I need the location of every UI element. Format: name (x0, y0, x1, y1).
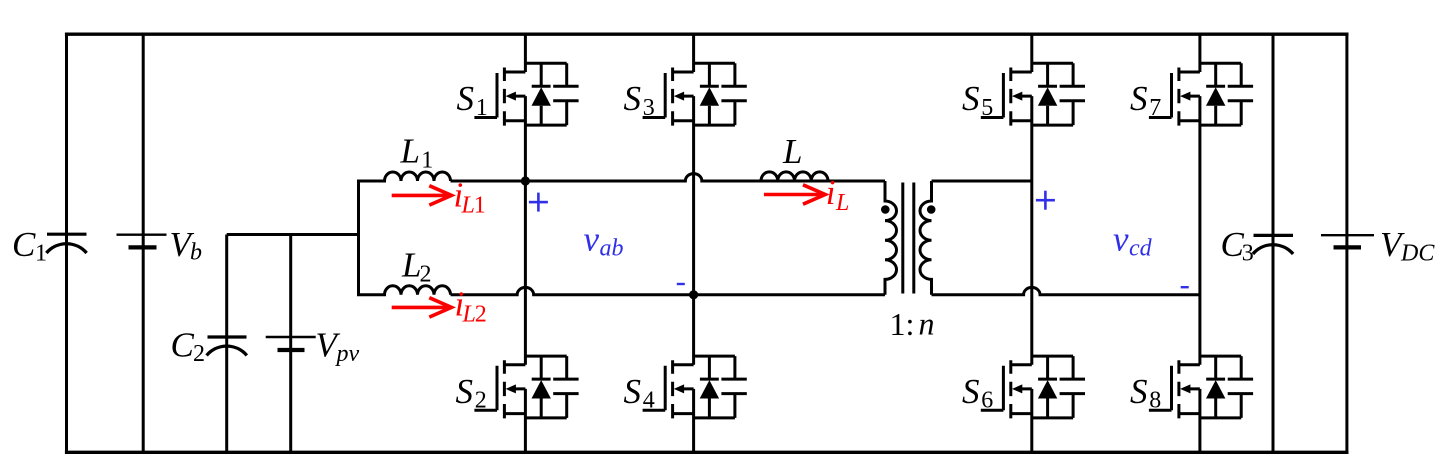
svg-text:6: 6 (981, 388, 993, 414)
inductor L1 (357, 172, 451, 181)
svg-text:1: 1 (35, 240, 47, 266)
svg-text:L: L (462, 302, 476, 328)
wire node d row: secondary to S7/S8 leg, hop over S5/S6 leg (932, 287, 1200, 294)
label VDC (1380, 225, 1435, 267)
svg-text:S: S (624, 372, 642, 411)
transistor S3 (MOSFET with body diode and snubber cap) (643, 63, 747, 125)
svg-text:S: S (457, 79, 475, 118)
svg-text:1: 1 (474, 192, 486, 218)
transformer secondary phase dot (927, 205, 936, 214)
inductor L (750, 172, 828, 181)
wire PV rail (227, 233, 359, 236)
wire S7/S8 leg (1198, 34, 1201, 452)
svg-text:3: 3 (643, 95, 655, 121)
capacitor C1 (46, 34, 86, 452)
svg-text:2: 2 (193, 341, 205, 367)
transistor S7 (MOSFET with body diode and snubber cap) (1149, 63, 1253, 125)
wire node c row: secondary to S5/S6 leg (932, 180, 1032, 183)
current arrow iL2 (392, 298, 452, 317)
svg-text:1: 1 (421, 148, 433, 174)
inductor L2 (357, 286, 451, 295)
svg-text:cd: cd (1129, 235, 1153, 261)
label L2 (401, 246, 432, 288)
label S8 (1130, 372, 1161, 414)
label L1 (400, 132, 434, 174)
transistor S8 (MOSFET with body diode and snubber cap) (1149, 356, 1253, 418)
wire S5/S6 leg (1030, 34, 1033, 452)
label - (node d polarity) (1181, 286, 1189, 288)
label Vb (170, 225, 203, 266)
label iL2 (455, 285, 487, 328)
svg-text:S: S (962, 372, 980, 411)
transformer secondary winding (920, 181, 932, 295)
label S4 (624, 372, 655, 414)
label C1 (12, 225, 47, 266)
label C3 (1221, 225, 1254, 267)
wire node a row: L1 to bridge, hop over S3/S4 leg (451, 174, 886, 181)
wire inductor input vertical (357, 181, 360, 295)
svg-text:C: C (171, 326, 195, 365)
svg-text:4: 4 (643, 388, 655, 414)
wire S3/S4 leg (692, 34, 695, 452)
svg-text:S: S (962, 79, 980, 118)
transistor S6 (MOSFET with body diode and snubber cap) (981, 356, 1085, 418)
svg-text:L: L (835, 190, 849, 216)
label + (node c polarity) (1036, 191, 1055, 210)
label 1:n turns ratio (890, 305, 935, 342)
transformer core (903, 183, 914, 294)
battery Vpv (266, 235, 316, 453)
label S2 (456, 372, 487, 414)
transformer primary phase dot (881, 205, 890, 214)
node a junction dot (521, 176, 530, 185)
svg-text:pv: pv (335, 341, 360, 367)
svg-text:2: 2 (475, 302, 487, 328)
svg-text:L: L (400, 132, 420, 171)
transformer primary winding (885, 181, 897, 295)
wire S1/S2 leg (524, 34, 527, 452)
svg-text:2: 2 (475, 388, 487, 414)
svg-text:n: n (919, 305, 935, 341)
svg-text:2: 2 (420, 262, 432, 288)
wire bottom bus (65, 451, 1349, 454)
label S1 (457, 79, 488, 121)
label iL (826, 173, 850, 216)
svg-text:7: 7 (1149, 95, 1161, 121)
label S6 (962, 372, 993, 414)
svg-text:i: i (826, 173, 836, 212)
svg-text:1: 1 (476, 95, 488, 121)
wire top bus (65, 33, 1349, 36)
label vcd (1113, 220, 1153, 262)
battery Vb (117, 34, 167, 452)
svg-text:DC: DC (1400, 241, 1435, 267)
svg-text:v: v (1113, 220, 1129, 259)
current arrow iL (764, 185, 825, 204)
svg-text:8: 8 (1149, 388, 1161, 414)
svg-text:S: S (1130, 372, 1148, 411)
label S5 (962, 79, 993, 121)
svg-text:5: 5 (981, 95, 993, 121)
svg-text:b: b (190, 240, 202, 266)
svg-text:L: L (461, 192, 475, 218)
transistor S4 (MOSFET with body diode and snubber cap) (643, 356, 747, 418)
wire node b row: L2 to bridge, hop over S1/S2 leg (451, 287, 886, 294)
label - (node b polarity) (677, 283, 685, 285)
transistor S2 (MOSFET with body diode and snubber cap) (474, 356, 578, 418)
battery VDC (1321, 34, 1374, 452)
label Vpv (316, 326, 360, 367)
capacitor C3 (1253, 34, 1293, 452)
label C2 (171, 326, 206, 367)
capacitor C2 (207, 235, 247, 453)
svg-text:v: v (584, 220, 600, 259)
label iL1 (454, 176, 486, 219)
label S7 (1130, 79, 1161, 121)
svg-text:L: L (401, 246, 421, 285)
svg-text:C: C (12, 225, 36, 264)
transistor S1 (MOSFET with body diode and snubber cap) (474, 63, 578, 125)
label + (node a polarity) (529, 193, 548, 212)
transistor S5 (MOSFET with body diode and snubber cap) (981, 63, 1085, 125)
svg-text:L: L (782, 132, 802, 171)
label S3 (624, 79, 655, 121)
svg-text:ab: ab (600, 235, 624, 261)
label vab (584, 220, 624, 262)
node b junction dot (689, 290, 698, 299)
svg-text:S: S (1130, 79, 1148, 118)
svg-text:S: S (624, 79, 642, 118)
current arrow iL1 (392, 186, 452, 205)
svg-text:S: S (456, 372, 474, 411)
svg-text:3: 3 (1242, 241, 1254, 267)
svg-text:1:: 1: (890, 306, 915, 342)
